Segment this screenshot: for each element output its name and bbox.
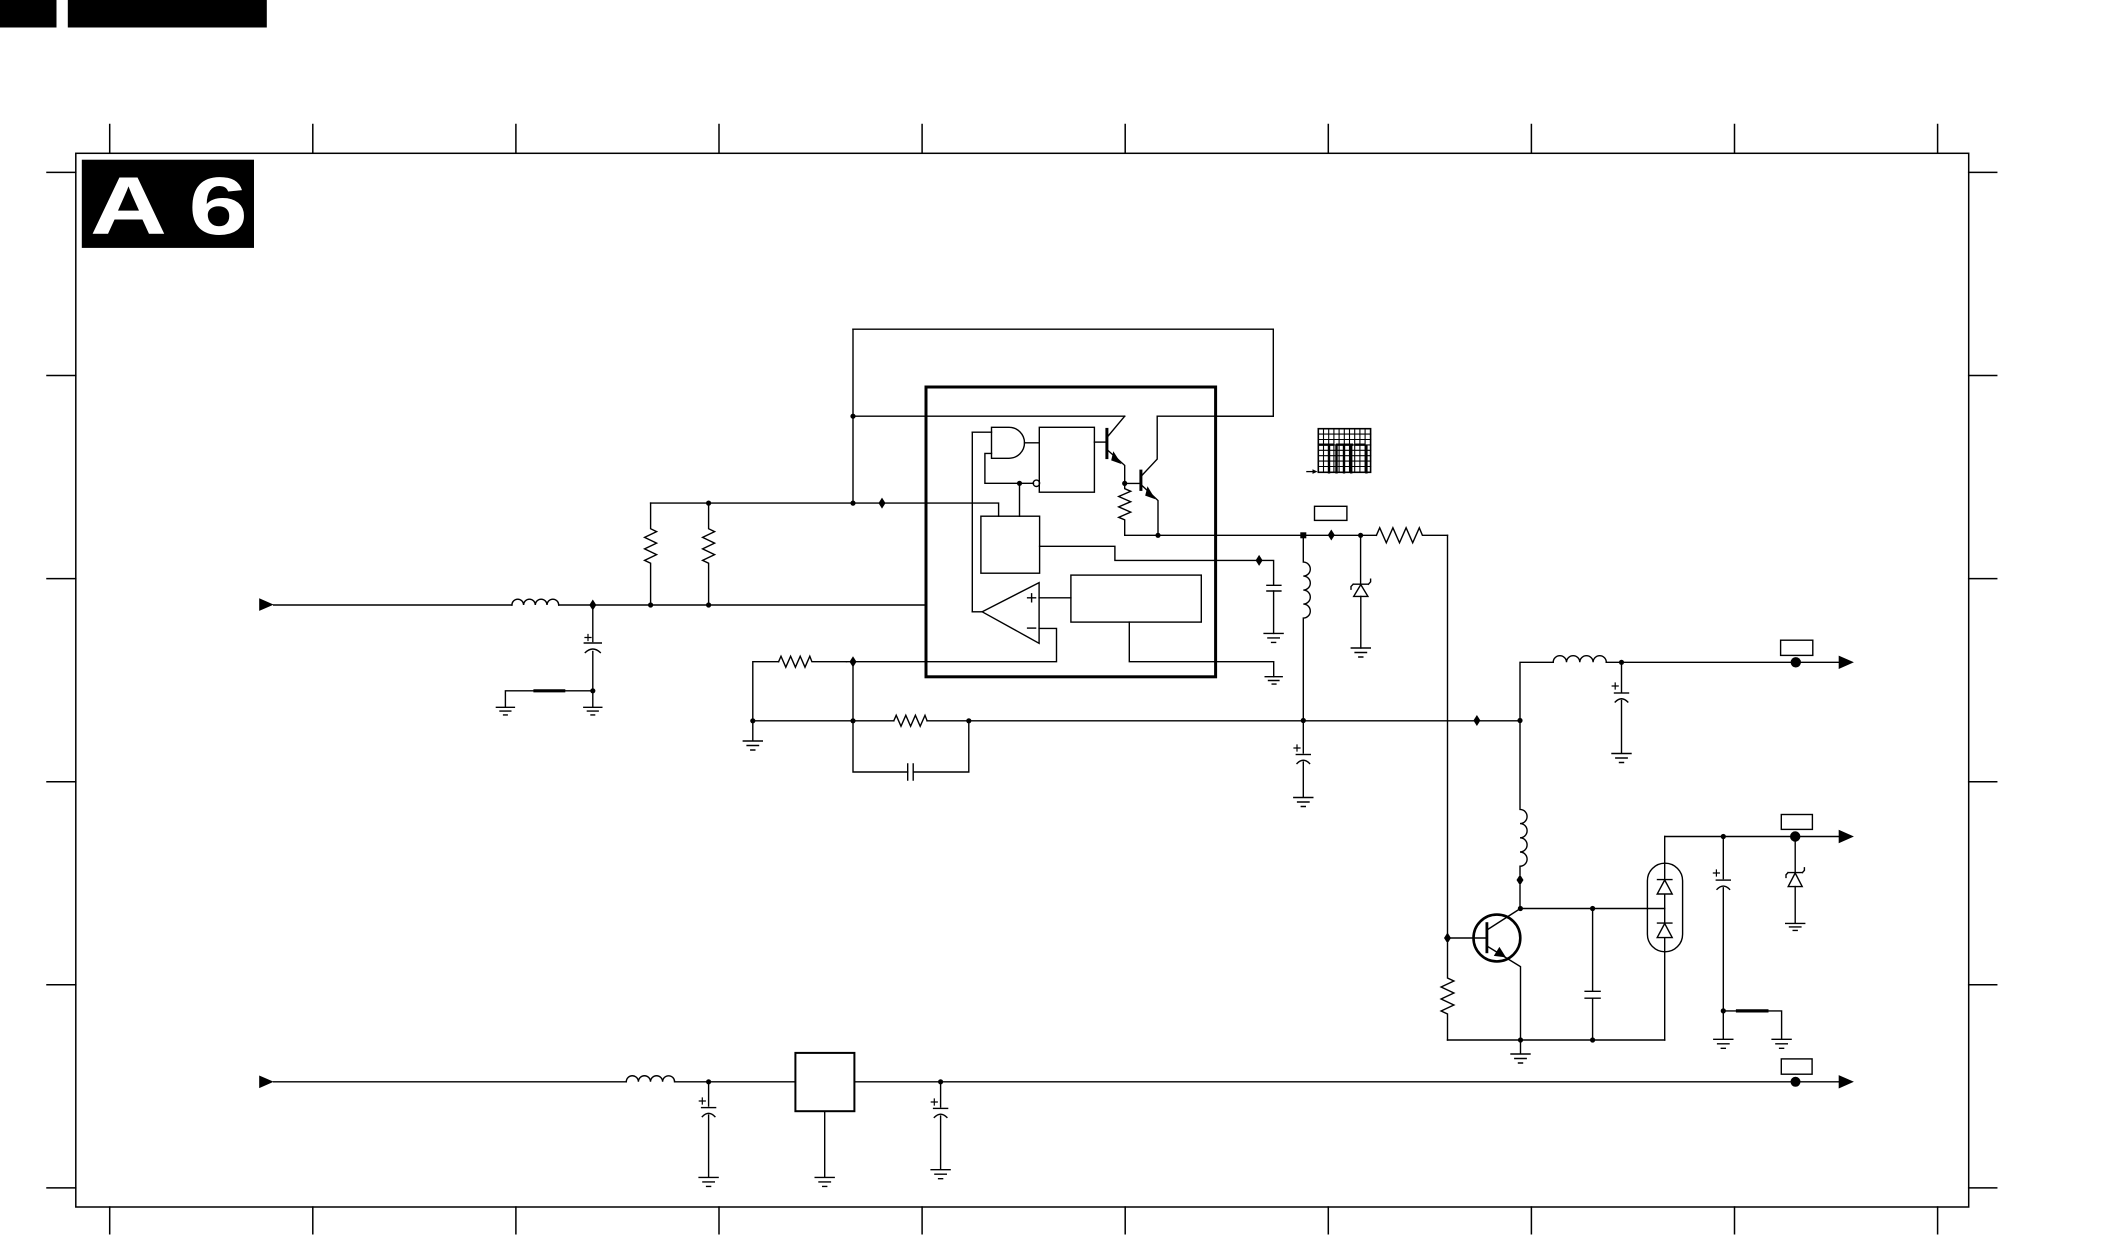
wire R5 left corner — [753, 662, 779, 721]
node J2 — [879, 498, 886, 509]
capsule vertical wire — [1664, 837, 1666, 1041]
capacitor C8 — [1585, 909, 1600, 1041]
ground GND1 — [496, 707, 514, 715]
latch box U1b — [1039, 427, 1094, 492]
ground GND5 — [1351, 648, 1370, 657]
wire rail 416 right — [1157, 415, 1273, 417]
wire bottom rail mid — [675, 1081, 796, 1083]
wire bottom rail — [1448, 1039, 1665, 1041]
wire feedback left vertical — [852, 329, 854, 503]
wire out2 rail — [1665, 836, 1840, 838]
node dot — [1619, 660, 1624, 665]
node dot — [590, 688, 595, 693]
node dot — [1518, 906, 1523, 911]
wire bottom rail left — [274, 1081, 627, 1083]
diamond J7 — [1517, 875, 1524, 886]
wire op-amp plus input — [1039, 597, 1071, 599]
node dot — [706, 501, 711, 506]
arrow out2 — [1839, 830, 1854, 843]
wire gnd link — [505, 691, 592, 707]
wire internal vertical feedback — [971, 432, 973, 612]
transistor Q3 base bar — [1486, 924, 1489, 952]
arrow out1 — [1839, 656, 1854, 669]
label box out2 — [1781, 815, 1812, 830]
ground GND10 — [1714, 1011, 1733, 1048]
opto capsule — [1647, 863, 1682, 952]
diamond J4 — [1256, 555, 1263, 566]
capacitor C11 electrolytic — [940, 1082, 942, 1107]
wire box3 bottom pin — [1129, 622, 1273, 676]
node dot — [1358, 533, 1363, 538]
inductor L2 — [1303, 535, 1310, 720]
wire up from rail to L3 — [1520, 662, 1553, 720]
diamond J5 — [850, 656, 857, 667]
wire diamond corner down — [1259, 560, 1274, 585]
AND gate U1a — [992, 427, 1025, 458]
node dot — [750, 718, 755, 723]
wire to second gnd — [1723, 1011, 1781, 1039]
node dot — [850, 501, 855, 506]
node dot — [1155, 533, 1160, 538]
ground GND6 — [743, 721, 762, 750]
wire U2 gnd — [824, 1111, 826, 1177]
wire Q2 base — [1125, 482, 1141, 484]
resistor R7 — [1441, 944, 1454, 1041]
wire down from R4 — [1447, 535, 1449, 938]
wire feedback right vertical — [1272, 329, 1274, 416]
svg-text:A6: A6 — [90, 161, 269, 252]
ground GND9 — [1511, 1040, 1530, 1063]
wire rail 721 mid — [927, 720, 1520, 722]
wire latch to Q1 base — [1094, 441, 1107, 443]
wire op-amp output — [972, 611, 982, 613]
sheet label A6 — [82, 160, 254, 248]
big node dot out1 — [1791, 657, 1801, 667]
Q3 collector — [1487, 909, 1521, 931]
input arrow IN1 — [259, 598, 274, 611]
ground GND8 — [1612, 754, 1631, 763]
ground GND15 — [931, 1170, 950, 1179]
capacitor C10 electrolytic — [708, 1082, 710, 1106]
wire out rail 535 — [1158, 534, 1376, 536]
diamond J8 — [1444, 933, 1451, 944]
capacitor C7 electrolytic — [1621, 662, 1623, 692]
label box small — [1315, 506, 1347, 520]
control box U1c — [981, 516, 1040, 573]
node dot — [1518, 1037, 1523, 1042]
resistor R3 internal — [1119, 483, 1158, 535]
ground GND12 — [1786, 923, 1805, 930]
wire AND input2 path — [985, 453, 1034, 483]
wire dot to box2 — [1019, 483, 1021, 516]
ref box U1e — [1071, 575, 1201, 622]
node J3 — [1328, 530, 1335, 541]
transistor Q1 — [1105, 429, 1108, 457]
node dot — [648, 602, 653, 607]
grid box — [1318, 429, 1370, 473]
regulator box U2 — [795, 1053, 854, 1111]
resistor R6 — [894, 715, 927, 726]
capacitor C1 electrolytic — [584, 642, 601, 644]
wire J1 ground stub — [592, 691, 594, 707]
ground GND2 — [584, 707, 602, 715]
node J1 — [589, 600, 596, 611]
node dot — [1590, 1037, 1595, 1042]
zener D1 — [1360, 535, 1362, 584]
Q3 emitter — [1487, 946, 1521, 1040]
ground GND7 — [1294, 798, 1313, 807]
wire box2 out stepped — [1040, 546, 1260, 560]
node dot — [1517, 718, 1522, 723]
transistor Q3 circle — [1474, 915, 1521, 962]
wire IC out to loop — [1216, 415, 1274, 417]
resistor R5 — [779, 656, 847, 667]
node dot — [850, 718, 855, 723]
transistor Q2 — [1139, 471, 1142, 489]
label box out3 — [1781, 1059, 1812, 1074]
wire rail 721 — [753, 720, 894, 722]
wire cap drop — [592, 605, 594, 642]
IC U1 body — [926, 387, 1216, 677]
node dot — [706, 1079, 711, 1084]
zener D4 — [1794, 837, 1796, 873]
diode D3 — [1657, 923, 1672, 938]
grid box arrow — [1307, 471, 1314, 473]
node dot — [938, 1079, 943, 1084]
wire bottom rail right — [854, 1081, 1840, 1083]
ground GND3 — [1265, 677, 1282, 684]
inductor L5 — [626, 1076, 674, 1082]
parallel cap branch — [853, 721, 969, 772]
resistor R4 — [1376, 528, 1447, 543]
inductor L1 — [512, 599, 559, 605]
node dot — [1017, 481, 1022, 486]
big node dot out2 — [1790, 831, 1800, 841]
arrow out3 — [1839, 1075, 1854, 1088]
resistor R1 — [645, 503, 657, 605]
node dot — [706, 602, 711, 607]
wire rail 662 to IC — [847, 661, 927, 663]
inductor L4 vertical — [1520, 721, 1527, 875]
node dot — [1301, 718, 1306, 723]
inverter bubble — [1033, 480, 1039, 486]
wire out1 rail — [1606, 661, 1840, 663]
wire diamond down — [852, 662, 854, 721]
diode D2 — [1657, 880, 1672, 894]
header bar main — [68, 0, 267, 28]
ground GND13 — [699, 1177, 718, 1186]
big node dot out3 — [1791, 1077, 1801, 1087]
node square — [1300, 532, 1306, 538]
inductor L3 — [1553, 656, 1606, 663]
node dot — [1721, 1008, 1726, 1013]
diamond J6 — [1473, 715, 1480, 726]
wire op-amp minus input — [926, 628, 1057, 661]
bold link bar — [535, 689, 564, 692]
node dot — [850, 414, 855, 419]
capacitor C9 electrolytic — [1722, 837, 1724, 879]
border frame — [76, 153, 1969, 1207]
capacitor C6 electrolytic — [1302, 721, 1304, 754]
resistor R2 — [703, 503, 715, 605]
capacitor C3 — [908, 764, 914, 780]
label box out1 — [1781, 640, 1813, 655]
wire L4 to collector node — [1519, 886, 1521, 909]
wire feedback top — [853, 328, 1273, 330]
wire input rail right — [559, 604, 926, 606]
Q3 base wire — [1451, 937, 1487, 939]
wire C1 to gnd node — [592, 652, 594, 691]
wire mid 908 — [1520, 908, 1664, 910]
input arrow IN2 — [259, 1076, 274, 1089]
node dot — [1721, 834, 1726, 839]
wire rail 416 left — [853, 415, 1125, 417]
wire C2 to gnd — [1273, 591, 1275, 633]
node dot — [966, 718, 971, 723]
wire AND output — [1025, 442, 1040, 444]
node dot — [1122, 481, 1127, 486]
bold link bar — [1738, 1009, 1767, 1012]
op-amp U1d — [982, 583, 1039, 644]
ground GND11 — [1772, 1039, 1791, 1048]
capacitor C2 — [1267, 585, 1281, 591]
ground GND14 — [815, 1177, 834, 1186]
wire rail 503 into box2 — [926, 503, 999, 516]
wire input rail left — [274, 604, 512, 606]
node dot — [1590, 906, 1595, 911]
wire rail 503 — [651, 502, 926, 504]
wire AND input1 — [972, 431, 991, 433]
header bar left — [0, 0, 57, 28]
ground GND4 — [1264, 633, 1283, 642]
